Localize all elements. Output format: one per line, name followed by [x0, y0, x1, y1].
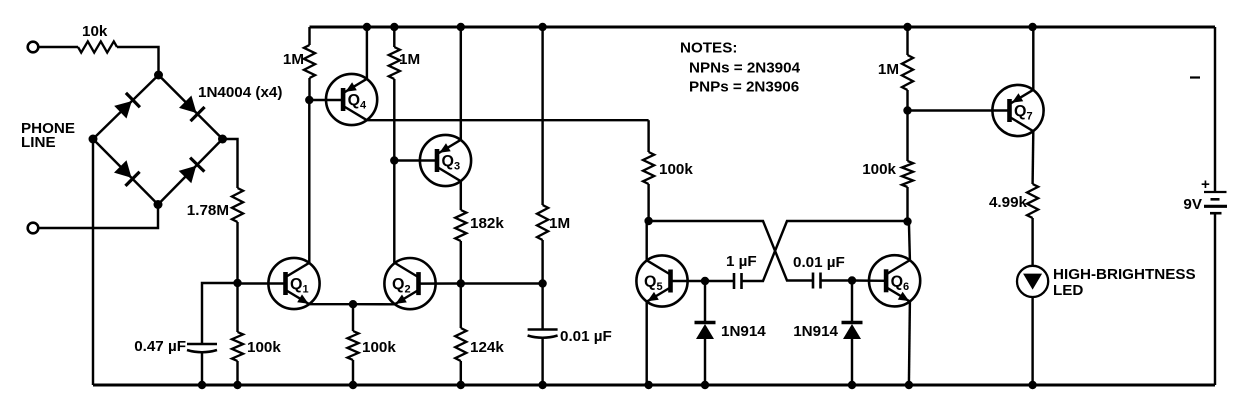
svg-text:1N4004 (x4): 1N4004 (x4): [198, 84, 282, 101]
svg-text:9V: 9V: [1183, 196, 1202, 213]
svg-text:124k: 124k: [470, 339, 504, 356]
svg-text:1M: 1M: [549, 215, 570, 232]
svg-text:LINE: LINE: [21, 134, 56, 151]
svg-text:100k: 100k: [659, 161, 693, 178]
svg-text:100k: 100k: [247, 339, 281, 356]
svg-text:LED: LED: [1053, 282, 1083, 299]
svg-text:10k: 10k: [82, 23, 108, 40]
svg-text:0.47 µF: 0.47 µF: [134, 338, 186, 355]
svg-text:1.78M: 1.78M: [187, 202, 229, 219]
svg-text:NOTES:: NOTES:: [680, 40, 737, 57]
svg-text:+: +: [1201, 176, 1210, 193]
svg-text:HIGH-BRIGHTNESS: HIGH-BRIGHTNESS: [1053, 266, 1196, 283]
svg-text:1 µF: 1 µF: [726, 253, 757, 270]
svg-text:100k: 100k: [362, 339, 396, 356]
svg-text:1M: 1M: [878, 61, 899, 78]
svg-text:0.01 µF: 0.01 µF: [793, 254, 845, 271]
svg-text:100k: 100k: [862, 161, 896, 178]
svg-text:0.01 µF: 0.01 µF: [560, 328, 612, 345]
svg-text:1M: 1M: [399, 51, 420, 68]
svg-text:1N914: 1N914: [793, 323, 838, 340]
svg-text:1N914: 1N914: [721, 323, 766, 340]
svg-text:1M: 1M: [283, 51, 304, 68]
svg-text:NPNs = 2N3904: NPNs = 2N3904: [689, 60, 801, 77]
svg-text:4.99k: 4.99k: [989, 194, 1028, 211]
svg-text:PNPs = 2N3906: PNPs = 2N3906: [689, 79, 799, 96]
svg-text:182k: 182k: [470, 215, 504, 232]
